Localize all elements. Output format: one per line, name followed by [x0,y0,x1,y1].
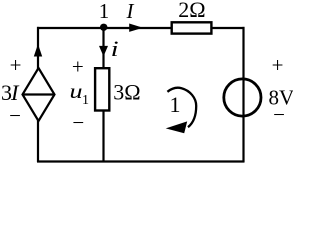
dependent source U1 (diamond, CCVS 3I) [23,68,55,121]
label plus of 3I source [10,53,22,77]
label current I [126,0,135,23]
current arrow I on top wire [129,24,143,32]
svg-text:+: + [10,53,22,77]
svg-text:3Ω: 3Ω [113,79,140,104]
label node 1 [99,0,110,23]
svg-text:1: 1 [82,93,89,108]
wire top [37,27,245,29]
label plus of 8V [272,53,284,77]
label current i [111,36,119,61]
wire left [37,27,39,162]
resistor R2 3ohm [95,68,109,110]
label minus of 3I source [9,104,21,128]
label plus of u1 [72,54,84,78]
current arrow on left branch (source arrow) [34,44,42,57]
svg-text:−: − [9,104,21,128]
svg-text:u: u [70,79,83,103]
svg-text:2Ω: 2Ω [178,0,205,22]
svg-text:1: 1 [170,92,181,117]
label 3 ohm [113,79,140,104]
resistor R1 2ohm [172,22,212,33]
label u1 voltage [70,79,90,108]
mesh arrow loop 1 [166,88,197,134]
label 3I source value [1,80,20,105]
svg-text:1: 1 [99,0,110,23]
svg-text:I: I [126,0,135,23]
wire middle branch [102,28,104,162]
voltage source US 8V (circle) [224,79,261,116]
svg-text:+: + [72,54,84,78]
label minus of 8V [273,103,285,127]
node 1 junction dot [100,24,107,31]
label 8V source value [269,85,295,109]
wire bottom [37,160,245,162]
label 2 ohm [178,0,205,22]
svg-text:−: − [72,111,84,135]
label minus of u1 [72,111,84,135]
svg-text:I: I [10,80,20,105]
svg-text:+: + [272,53,284,77]
label mesh 1 [170,92,181,117]
svg-text:−: − [273,103,285,127]
current arrow i on middle branch [99,46,108,57]
svg-text:i: i [111,36,119,61]
wire right [242,27,244,162]
